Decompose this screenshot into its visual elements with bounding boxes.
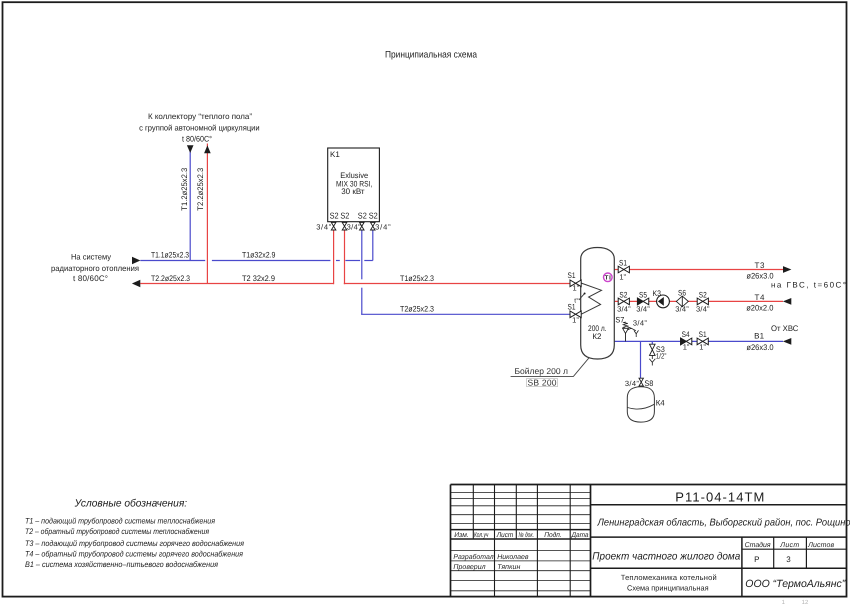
- svg-text:№ док.: № док.: [518, 531, 534, 539]
- svg-text:Изм.: Изм.: [454, 532, 469, 539]
- svg-text:на ГВС, t=60С°: на ГВС, t=60С°: [771, 281, 846, 290]
- svg-text:Т2 – обратный трубопровод сист: Т2 – обратный трубопровод системы теплос…: [25, 527, 210, 536]
- svg-text:Т1.2ø25х2.3: Т1.2ø25х2.3: [180, 167, 189, 211]
- svg-text:S2: S2: [330, 211, 339, 221]
- svg-text:3/4”: 3/4”: [636, 305, 650, 314]
- svg-text:1”: 1”: [572, 316, 579, 325]
- svg-text:S1: S1: [568, 271, 576, 280]
- svg-text:К коллектору “теплого пола”: К коллектору “теплого пола”: [148, 112, 252, 121]
- svg-text:Т4: Т4: [755, 293, 766, 302]
- svg-text:S1: S1: [699, 330, 707, 339]
- svg-text:В1: В1: [754, 331, 765, 340]
- svg-text:S2: S2: [619, 290, 627, 299]
- svg-text:30 кВт: 30 кВт: [341, 187, 365, 196]
- svg-text:3: 3: [786, 555, 791, 564]
- svg-text:S4: S4: [682, 330, 690, 339]
- svg-text:S7: S7: [615, 316, 624, 325]
- svg-text:Разработал: Разработал: [453, 553, 493, 561]
- svg-text:От ХВС: От ХВС: [771, 324, 799, 333]
- svg-text:Р11-04-14ТМ: Р11-04-14ТМ: [675, 490, 764, 505]
- svg-text:Т3: Т3: [755, 261, 766, 270]
- svg-text:Р: Р: [754, 555, 759, 564]
- svg-text:1”: 1”: [683, 343, 690, 352]
- svg-text:Проверил: Проверил: [453, 564, 485, 571]
- svg-text:S1: S1: [568, 303, 576, 312]
- svg-text:Т1ø25х2.3: Т1ø25х2.3: [400, 274, 434, 283]
- svg-text:Т2.2ø25х2.3: Т2.2ø25х2.3: [196, 167, 205, 211]
- svg-text:3/4”: 3/4”: [617, 305, 631, 314]
- svg-text:радиаторного отопления: радиаторного отопления: [51, 264, 139, 273]
- svg-text:1”: 1”: [572, 284, 579, 293]
- svg-text:Т2ø25х2.3: Т2ø25х2.3: [400, 305, 434, 314]
- svg-text:Стадия: Стадия: [745, 541, 771, 549]
- svg-text:Т1ø32х2.9: Т1ø32х2.9: [242, 250, 276, 259]
- svg-text:Т2 32х2.9: Т2 32х2.9: [242, 274, 276, 283]
- svg-text:3/4”: 3/4”: [696, 305, 710, 314]
- svg-text:с группой автономной циркуляци: с группой автономной циркуляции: [139, 123, 260, 132]
- svg-text:3/4”: 3/4”: [316, 222, 332, 231]
- svg-text:Т1.1ø25х2.3: Т1.1ø25х2.3: [151, 250, 189, 259]
- svg-text:S2: S2: [358, 211, 367, 221]
- svg-text:Т1 – подающий трубопровод сист: Т1 – подающий трубопровод системы теплос…: [25, 517, 216, 526]
- svg-text:В1 – система хозяйственно–пить: В1 – система хозяйственно–питьевого водо…: [25, 560, 219, 569]
- svg-text:K3: K3: [652, 289, 661, 298]
- svg-text:ø26х3.0: ø26х3.0: [746, 343, 774, 352]
- svg-text:Принципиальная схема: Принципиальная схема: [385, 50, 478, 61]
- svg-text:Т3 – подающий трубопровод сист: Т3 – подающий трубопровод системы горяче…: [25, 539, 245, 548]
- svg-text:Тепломеханика котельной: Тепломеханика котельной: [621, 573, 717, 582]
- svg-text:На систему: На систему: [71, 253, 111, 262]
- svg-text:Лист: Лист: [496, 532, 514, 539]
- svg-text:Дата: Дата: [571, 532, 589, 539]
- svg-text:S2: S2: [369, 211, 378, 221]
- svg-text:3/4”: 3/4”: [633, 319, 648, 328]
- svg-text:Ленинградская область, Выборгс: Ленинградская область, Выборгский район,…: [597, 517, 850, 528]
- svg-text:S2: S2: [699, 290, 707, 299]
- svg-text:К2: К2: [592, 332, 602, 341]
- svg-text:t 80/60C°: t 80/60C°: [182, 134, 212, 143]
- svg-text:t 80/60C°: t 80/60C°: [73, 274, 108, 283]
- svg-text:Т4 – обратный трубопровод сист: Т4 – обратный трубопровод системы горяче…: [25, 549, 244, 558]
- svg-text:K1: K1: [330, 150, 340, 159]
- svg-text:S2: S2: [340, 211, 349, 221]
- svg-text:ø20х2.0: ø20х2.0: [746, 303, 774, 312]
- svg-text:3/4”: 3/4”: [675, 305, 689, 314]
- svg-text:Листов: Листов: [807, 542, 834, 549]
- svg-text:3/4”: 3/4”: [347, 222, 362, 231]
- svg-text:Николаев: Николаев: [497, 554, 529, 561]
- svg-text:Условные обозначения:: Условные обозначения:: [74, 498, 188, 510]
- svg-text:ø26х3.0: ø26х3.0: [746, 271, 774, 280]
- svg-text:1 12: 1 12: [782, 599, 809, 605]
- svg-text:S1: S1: [619, 258, 627, 267]
- svg-text:К4: К4: [656, 399, 666, 408]
- svg-text:Т2.2ø25х2.3: Т2.2ø25х2.3: [151, 274, 190, 283]
- svg-text:Лист: Лист: [779, 542, 799, 549]
- svg-text:S6: S6: [678, 288, 686, 297]
- svg-text:S5: S5: [639, 290, 647, 299]
- svg-text:ООО “ТермоАльянс”: ООО “ТермоАльянс”: [745, 578, 845, 590]
- svg-text:Тяпкин: Тяпкин: [497, 564, 520, 571]
- svg-text:1/2”: 1/2”: [656, 352, 667, 361]
- svg-text:Проект частного жилого дома: Проект частного жилого дома: [592, 551, 740, 563]
- svg-text:1”: 1”: [699, 343, 706, 352]
- svg-text:3/4”: 3/4”: [375, 222, 391, 231]
- svg-text:Бойлер 200 л: Бойлер 200 л: [514, 366, 568, 376]
- svg-text:Схема принципиальная: Схема принципиальная: [627, 584, 709, 593]
- svg-text:1”: 1”: [619, 272, 626, 281]
- svg-text:Кол.уч: Кол.уч: [474, 532, 489, 539]
- svg-text:Подп.: Подп.: [544, 531, 562, 539]
- svg-text:SB 200: SB 200: [528, 378, 557, 388]
- svg-text:TI: TI: [605, 275, 611, 282]
